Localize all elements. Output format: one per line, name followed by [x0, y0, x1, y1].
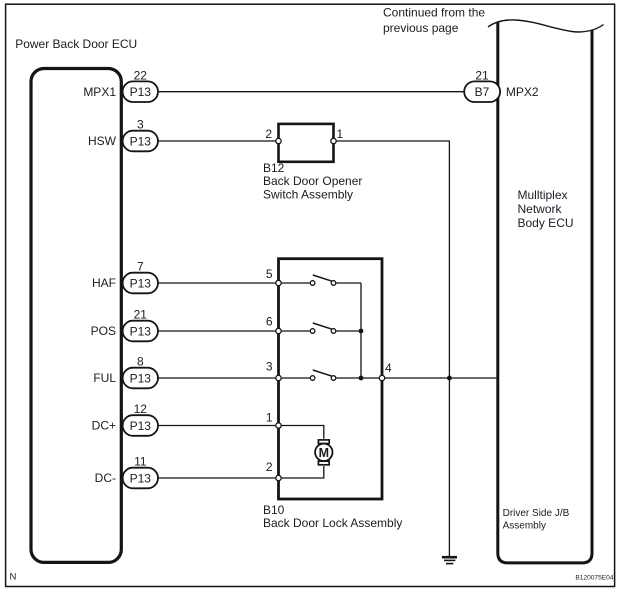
wire B12 pin 1 to ground rail — [336, 141, 449, 556]
svg-text:2: 2 — [266, 460, 273, 474]
pin circle B10-4 — [379, 375, 384, 380]
svg-text:3: 3 — [137, 118, 144, 132]
svg-text:Back Door Opener: Back Door Opener — [263, 174, 362, 188]
switch B12 Back Door Opener Switch Assembly — [279, 124, 334, 162]
svg-text:P13: P13 — [130, 85, 152, 99]
svg-text:4: 4 — [385, 361, 392, 375]
svg-text:MPX2: MPX2 — [506, 85, 539, 99]
svg-text:previous page: previous page — [383, 21, 459, 35]
svg-text:Mulltiplex: Mulltiplex — [518, 188, 568, 202]
svg-text:M: M — [319, 446, 329, 460]
svg-text:1: 1 — [266, 411, 273, 425]
wire pin1 to motor — [281, 426, 324, 439]
svg-text:N: N — [10, 572, 17, 583]
svg-text:6: 6 — [266, 314, 273, 328]
wire POS to B10 pin 6 — [158, 330, 276, 332]
svg-text:P13: P13 — [130, 324, 152, 338]
svg-text:Power Back Door ECU: Power Back Door ECU — [15, 37, 137, 51]
Multiplex Network Body ECU bus bar — [498, 23, 592, 563]
switch SW1 (row 5) — [281, 275, 336, 285]
svg-text:POS: POS — [91, 324, 116, 338]
wire row6 to branch — [336, 330, 361, 332]
connector P13 (HAF pin 7) — [123, 273, 158, 294]
svg-text:FUL: FUL — [93, 371, 116, 385]
connector P13 (FUL pin 8) — [123, 368, 158, 389]
svg-text:MPX1: MPX1 — [83, 85, 116, 99]
svg-text:B120075E04: B120075E04 — [575, 574, 613, 581]
svg-text:P13: P13 — [130, 134, 152, 148]
svg-text:1: 1 — [337, 127, 344, 141]
svg-text:Switch Assembly: Switch Assembly — [263, 187, 353, 201]
pin circle B12-1 — [331, 138, 336, 143]
svg-text:21: 21 — [475, 68, 489, 82]
svg-text:HAF: HAF — [92, 276, 116, 290]
svg-text:21: 21 — [134, 308, 148, 322]
svg-text:12: 12 — [134, 402, 148, 416]
svg-text:Network: Network — [518, 202, 563, 216]
continuation wave — [488, 20, 604, 32]
wire DC+ to B10 pin 1 — [158, 425, 276, 427]
connector B7 (MPX2 pin 21) — [464, 81, 500, 102]
wire DC- to B10 pin 2 — [158, 477, 276, 479]
pin circle B10-2 — [276, 475, 281, 480]
connector P13 (MPX1 pin 22) — [123, 81, 158, 102]
pin circle B10-3 — [276, 375, 281, 380]
wire row3 to pin 4 — [336, 377, 380, 379]
junction dot row3 — [359, 376, 364, 381]
motor M1 — [315, 440, 332, 465]
wire pin4 to bus bar — [385, 377, 497, 379]
svg-text:Back Door Lock Assembly: Back Door Lock Assembly — [263, 516, 402, 530]
Power Back Door ECU box — [31, 69, 121, 563]
pin circle B10-1 — [276, 423, 281, 428]
svg-text:Assembly: Assembly — [503, 521, 546, 532]
svg-text:P13: P13 — [130, 371, 152, 385]
svg-text:7: 7 — [137, 260, 144, 274]
relay/lock B10 Back Door Lock Assembly box — [279, 259, 383, 499]
svg-text:DC-: DC- — [95, 471, 116, 485]
connector P13 (DC+ pin 12) — [123, 415, 158, 436]
wire row5 to branch — [336, 282, 361, 284]
svg-text:8: 8 — [137, 355, 144, 369]
wire MPX1 to B7 — [158, 91, 464, 93]
svg-text:3: 3 — [266, 360, 273, 374]
svg-text:P13: P13 — [130, 419, 152, 433]
svg-text:2: 2 — [265, 127, 272, 141]
switch SW2 (row 6) — [281, 323, 336, 333]
svg-text:P13: P13 — [130, 276, 152, 290]
connector P13 (POS pin 21) — [123, 321, 158, 342]
wire HAF to B10 pin 5 — [158, 282, 276, 284]
wire HSW to B12 pin 2 — [158, 140, 276, 142]
connector P13 (DC- pin 11) — [123, 468, 158, 489]
junction dot ground rail — [447, 376, 452, 381]
junction dot row6 — [359, 329, 364, 334]
svg-text:DC+: DC+ — [92, 419, 116, 433]
svg-text:Continued from the: Continued from the — [383, 6, 485, 20]
pin circle B10-5 — [276, 280, 281, 285]
connector P13 (HSW pin 3) — [123, 131, 158, 152]
wire FUL to B10 pin 3 — [158, 377, 276, 379]
svg-text:HSW: HSW — [88, 134, 117, 148]
wire motor to pin2 — [281, 466, 324, 478]
svg-text:B12: B12 — [263, 161, 285, 175]
pin circle B12-2 — [276, 138, 281, 143]
branch wire (switch commons) — [360, 283, 362, 378]
ground — [442, 557, 457, 563]
svg-text:B7: B7 — [475, 85, 490, 99]
svg-text:11: 11 — [134, 455, 147, 469]
pin circle B10-6 — [276, 328, 281, 333]
svg-text:22: 22 — [134, 68, 148, 82]
svg-text:P13: P13 — [130, 471, 152, 485]
svg-text:5: 5 — [266, 267, 273, 281]
switch SW3 (row 3) — [281, 370, 336, 380]
svg-text:Driver Side J/B: Driver Side J/B — [503, 508, 570, 519]
svg-text:Body ECU: Body ECU — [518, 216, 574, 230]
